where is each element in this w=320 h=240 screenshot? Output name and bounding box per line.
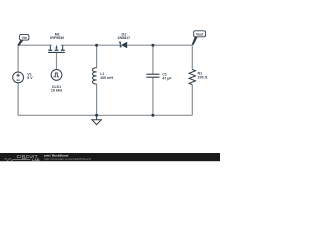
svg-text:100 Ω: 100 Ω <box>198 75 208 79</box>
flag Vout <box>192 31 206 45</box>
svg-text:Vin: Vin <box>22 36 27 40</box>
wire L1 top lead <box>96 45 98 68</box>
svg-text:1N5817: 1N5817 <box>118 36 131 40</box>
inductor L1 <box>92 68 96 84</box>
transistor M1 (PMOS IRF9530) <box>48 45 65 52</box>
wire C1 bottom lead <box>152 77 154 115</box>
wire top-left segment (Vin corner to M1 source) <box>18 44 52 46</box>
wire bottom rail <box>18 114 192 116</box>
wire M1 drain to Vout corner (through L1 node, D1, C1 node) <box>61 44 193 46</box>
voltage source V1 <box>13 72 24 83</box>
footer bar (CircuitLab watermark) <box>0 153 220 161</box>
junction dot (C1 on bottom rail) <box>151 114 154 117</box>
junction dot node A (L1 tap on top wire) <box>95 44 98 47</box>
svg-text:47 µF: 47 µF <box>162 77 172 81</box>
logo squiggle <box>5 158 31 160</box>
wire left vertical below V1 <box>17 83 19 116</box>
svg-text:IRF9530: IRF9530 <box>50 36 64 40</box>
wire right vertical below R1 <box>191 85 193 116</box>
svg-text:Vout: Vout <box>196 32 204 36</box>
svg-text:10 kHz: 10 kHz <box>51 89 63 93</box>
svg-text:5 V: 5 V <box>27 76 33 80</box>
diode D1 (1N5817 schottky) <box>119 42 127 49</box>
junction dot Vout net (C1 tap on top wire) <box>151 44 154 47</box>
flag Vin <box>18 34 29 46</box>
junction dot ground node (L1 on bottom rail) <box>95 114 98 117</box>
clock source CLK1 <box>51 70 62 81</box>
resistor R1 <box>189 70 195 85</box>
capacitor C1 <box>146 74 159 77</box>
wire left vertical above V1 <box>17 45 19 72</box>
ground <box>92 115 101 124</box>
wire right vertical above R1 <box>191 45 193 69</box>
wire M1 gate lead to CLK1 <box>56 53 58 70</box>
wire C1 top lead <box>152 45 154 74</box>
svg-text:LAB: LAB <box>32 158 40 162</box>
svg-text:http://circuitlab.com/czadd978: http://circuitlab.com/czadd978ce3f <box>44 157 91 161</box>
svg-text:100 mH: 100 mH <box>100 76 113 80</box>
wire L1 bottom lead <box>96 84 98 115</box>
